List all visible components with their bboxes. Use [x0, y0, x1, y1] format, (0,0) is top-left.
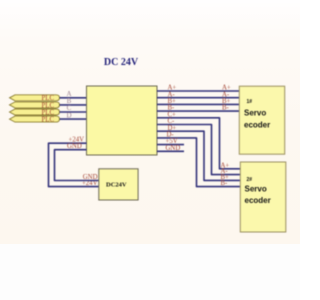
- svg-text:DC 24V: DC 24V: [104, 57, 139, 68]
- svg-text:B-: B-: [222, 105, 230, 112]
- svg-text:B-: B-: [221, 180, 229, 187]
- svg-text:PLC: PLC: [42, 102, 55, 109]
- svg-text:PLC: PLC: [42, 109, 55, 116]
- wire GND to DC24V supply: [55, 150, 99, 181]
- svg-text:ecoder: ecoder: [244, 121, 270, 130]
- svg-text:1#: 1#: [247, 99, 253, 105]
- wire D: [60, 118, 87, 120]
- wire A: [60, 97, 87, 99]
- svg-text:GND: GND: [83, 174, 98, 181]
- wire +24V to DC24V supply: [49, 143, 99, 186]
- svg-text:GND: GND: [166, 145, 181, 152]
- wire C: [60, 111, 87, 113]
- connector PLC1: [10, 95, 60, 102]
- wire C- to encoder2: [157, 125, 240, 175]
- connector PLC4: [10, 116, 60, 123]
- connector PLC2: [10, 102, 60, 109]
- svg-text:ecoder: ecoder: [245, 196, 271, 205]
- svg-text:PLC: PLC: [42, 117, 55, 124]
- wire B: [60, 104, 87, 106]
- power supply DC24V box: [99, 169, 138, 200]
- wire +5V stub: [157, 144, 184, 146]
- wire B-: [157, 110, 239, 112]
- svg-text:Servo: Servo: [245, 184, 267, 193]
- wire D- to encoder2: [157, 138, 240, 187]
- servo encoder 2 box: [240, 162, 285, 232]
- wire D+ to encoder2: [157, 131, 240, 180]
- wire A-: [157, 97, 239, 99]
- servo encoder 1 box: [239, 86, 284, 154]
- svg-text:PLC: PLC: [42, 95, 55, 102]
- svg-text:DC24V: DC24V: [106, 182, 127, 189]
- svg-text:D: D: [66, 111, 71, 119]
- wire C+ to encoder2: [157, 118, 240, 169]
- connector PLC3: [10, 109, 60, 116]
- svg-text:2#: 2#: [247, 177, 253, 183]
- interface box U1: [87, 86, 158, 155]
- wire B+: [157, 103, 239, 105]
- svg-text:GND: GND: [67, 143, 82, 150]
- svg-text:Servo: Servo: [244, 109, 266, 118]
- wire A+: [157, 90, 239, 92]
- wire GND stub: [157, 150, 184, 152]
